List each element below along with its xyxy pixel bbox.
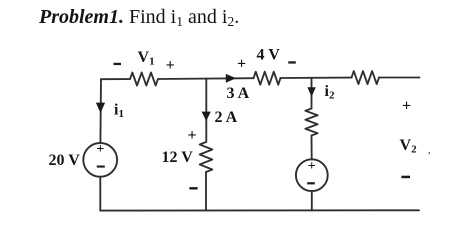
svg-text:+: + [308, 159, 316, 174]
svg-text:4 V: 4 V [257, 47, 281, 64]
svg-text:V2: V2 [400, 137, 418, 156]
wire top (4V resistor to right resistor) [281, 77, 352, 79]
label minus inside 20V source [97, 166, 105, 168]
wire to source circle [311, 136, 313, 160]
svg-text:+: + [96, 142, 104, 157]
wire bottom [100, 209, 419, 211]
svg-text:+: + [188, 127, 197, 144]
wire top middle (node B to 4V resistor) [158, 77, 254, 80]
label minus (V2) [401, 176, 410, 179]
svg-text:,: , [428, 145, 431, 156]
arrow 3A (right) [226, 74, 236, 83]
label minus (V1) [114, 63, 122, 65]
svg-text:+: + [237, 56, 246, 73]
resistor 4V [254, 72, 281, 85]
svg-text:i2: i2 [325, 83, 335, 102]
arrow i2 (down) [307, 87, 315, 97]
resistor 12V [200, 142, 213, 172]
svg-text:2 A: 2 A [215, 109, 238, 126]
arrow i1 (down) [96, 103, 105, 113]
wire source to bottom [311, 191, 313, 210]
wire top-right end [379, 77, 420, 79]
wire middle branch lower [205, 172, 207, 211]
wire left branch lower [99, 177, 101, 211]
wire middle branch [205, 79, 207, 142]
resistor V1 [130, 73, 158, 86]
svg-text:20 V: 20 V [49, 152, 81, 169]
svg-text:i1: i1 [114, 102, 124, 121]
wire left branch upper [99, 79, 102, 143]
source circle right branch [296, 159, 328, 191]
resistor right [352, 71, 380, 84]
label minus (12V) [189, 187, 197, 189]
svg-text:Problem1. Find i1 and i2.: Problem1. Find i1 and i2. [38, 6, 239, 29]
resistor right-middle branch [305, 109, 317, 136]
svg-text:+: + [402, 98, 411, 115]
label minus (4V) [288, 61, 296, 63]
arrow 2A (down) [202, 112, 211, 121]
svg-text:3 A: 3 A [227, 85, 250, 102]
voltage source 20V circle [83, 143, 117, 177]
svg-text:V1: V1 [138, 49, 155, 68]
svg-text:+: + [166, 57, 175, 74]
label minus inside right source [307, 182, 315, 184]
wire top-left segment [101, 78, 130, 80]
svg-text:12 V: 12 V [162, 149, 194, 166]
wire right-middle branch upper [311, 78, 313, 109]
